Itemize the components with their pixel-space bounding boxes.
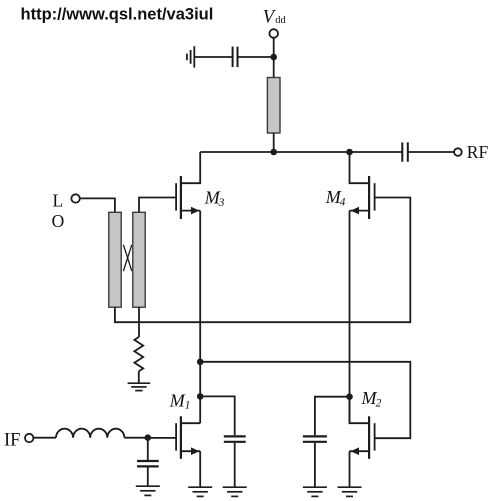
svg-text:RF: RF xyxy=(467,142,489,162)
wire node G to capacitor C5 xyxy=(315,397,350,436)
node E (M1 drain / bypass junction) xyxy=(197,393,204,400)
wire capacitor C4 to ground xyxy=(147,467,149,486)
wire choke L1 to node B xyxy=(273,133,275,152)
wire IF terminal to inductor L2 xyxy=(33,437,56,439)
wire capacitor C1 to ground xyxy=(194,56,232,58)
terminal RF xyxy=(454,148,462,156)
inductor L2 (IF matching coil) xyxy=(56,429,124,438)
wire node C to capacitor C2 xyxy=(350,151,403,153)
svg-text:http://www.qsl.net/va3iul: http://www.qsl.net/va3iul xyxy=(21,5,214,23)
wire node F to capacitor C4 xyxy=(147,438,149,460)
wire node A to capacitor C1 xyxy=(238,56,274,58)
capacitor C5 (M2 drain bypass) xyxy=(303,436,327,441)
wire M3 source down to M1 drain xyxy=(199,211,201,424)
wire LO terminal to coupled line TL1 top xyxy=(80,198,115,212)
node G (M2 drain / bypass junction) xyxy=(346,393,353,400)
node D (M1 drain sense junction) xyxy=(197,359,204,366)
ground (C5) xyxy=(303,487,327,496)
M3 label xyxy=(204,188,225,209)
node C (M4 drain / RF tap junction) xyxy=(346,149,353,156)
node B (drain rail junction) xyxy=(270,149,277,156)
LO label xyxy=(52,190,65,231)
terminal IF xyxy=(25,434,33,442)
svg-text:4: 4 xyxy=(340,197,346,209)
svg-text:L: L xyxy=(53,190,64,210)
Vdd label xyxy=(263,8,287,28)
wire node A to choke L1 xyxy=(273,57,275,78)
transistor M1 xyxy=(176,416,200,459)
wire M4 source down to M2 drain xyxy=(349,211,351,424)
svg-text:IF: IF xyxy=(4,430,20,450)
capacitor C1 (Vdd bypass) xyxy=(233,47,238,67)
wire M4 drain to rail xyxy=(350,152,369,183)
wire node D to M2 gate xyxy=(200,362,410,438)
wire TL2 bottom to resistor R1 xyxy=(138,307,140,337)
wire inductor L2 to node F xyxy=(124,437,147,439)
wire drain rail (M3 drain to M4 drain) xyxy=(200,151,349,153)
wire capacitor C2 to RF terminal xyxy=(408,151,454,153)
coupled line TL1 (balun, LO side) xyxy=(109,212,121,307)
ground (M2 source) xyxy=(338,487,362,496)
M2 label xyxy=(361,388,382,409)
ground (C3) xyxy=(223,487,247,496)
terminal LO xyxy=(71,194,79,202)
wire M2 source to ground xyxy=(349,451,351,487)
terminal Vdd xyxy=(269,29,278,38)
coupled line TL2 (balun, gate side) xyxy=(133,212,145,307)
wire capacitor C3 to ground xyxy=(234,443,236,487)
wire resistor R1 to ground xyxy=(138,371,140,383)
transistor M2 xyxy=(350,416,375,459)
capacitor C4 (IF shunt) xyxy=(137,461,159,466)
svg-text:1: 1 xyxy=(185,400,191,412)
transistor M3 xyxy=(176,176,200,219)
node A (Vdd decoupling junction) xyxy=(270,54,277,61)
wire node E to capacitor C3 xyxy=(200,396,235,435)
wire M3 drain to rail xyxy=(182,152,200,183)
ground (R1) xyxy=(128,383,151,390)
wire Vdd terminal to node A xyxy=(273,38,275,57)
wire capacitor C5 to ground xyxy=(314,443,316,487)
wire TL1 bottom to M4 gate xyxy=(115,198,410,323)
node F (M1 gate junction) xyxy=(145,434,152,441)
choke L1 (drain RFC) xyxy=(267,78,280,134)
wire M3 gate to coupled line TL2 top xyxy=(139,198,176,213)
svg-text:2: 2 xyxy=(376,397,382,409)
svg-text:dd: dd xyxy=(275,15,286,26)
capacitor C2 (RF output coupling) xyxy=(402,142,408,161)
wire node F to M1 gate xyxy=(148,437,176,439)
capacitor C3 (M1 drain bypass) xyxy=(224,436,246,441)
svg-text:3: 3 xyxy=(218,197,225,209)
svg-text:O: O xyxy=(52,211,65,231)
ground (M1 source) xyxy=(188,487,212,496)
wire M1 source to ground xyxy=(199,451,201,487)
transistor M4 xyxy=(350,176,375,219)
M1 label xyxy=(169,390,191,411)
wire M1 drain to node E xyxy=(182,422,200,424)
ground (Vdd bypass, rotated left) xyxy=(187,46,194,67)
coupling mark X xyxy=(123,245,131,271)
svg-text:M: M xyxy=(169,390,186,410)
resistor R1 xyxy=(134,337,143,371)
ground (C4) xyxy=(136,486,160,495)
wire M2 drain to node G xyxy=(350,397,369,424)
M4 label xyxy=(325,187,346,208)
